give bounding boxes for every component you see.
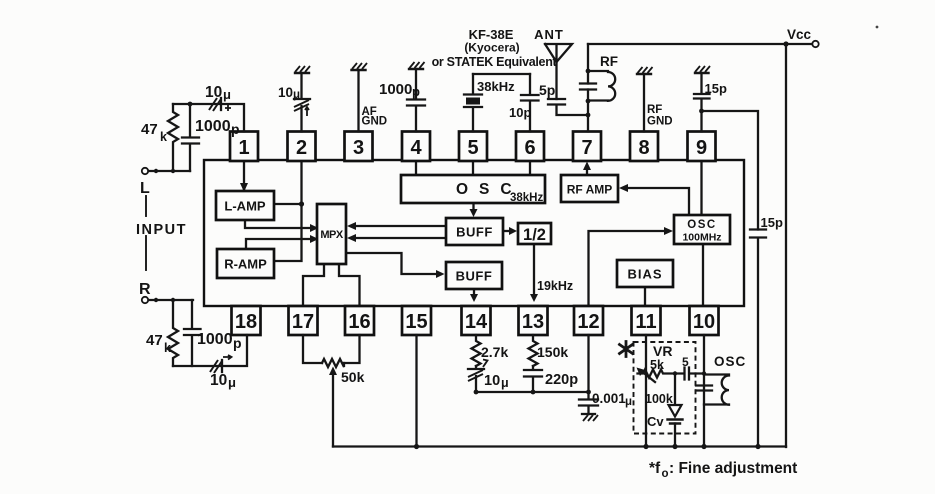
capacitor 220p pin13 xyxy=(524,366,542,392)
svg-text:17: 17 xyxy=(292,311,314,333)
wire MPX out to BUFF2 xyxy=(346,253,441,274)
terminal Vcc xyxy=(812,41,818,47)
potentiometer 50k xyxy=(322,359,344,367)
potentiometer 5k xyxy=(638,370,675,378)
svg-text:10: 10 xyxy=(484,373,500,389)
inductor OSC tank coil xyxy=(704,375,729,405)
capacitor 10u electrolytic L (series) xyxy=(209,98,231,111)
svg-text:10: 10 xyxy=(210,372,227,389)
wire pin12 to OSC100 xyxy=(589,231,670,306)
svg-text:R-AMP: R-AMP xyxy=(224,257,267,272)
wire pin16 to pot xyxy=(344,335,360,363)
svg-text:8: 8 xyxy=(638,137,649,159)
resistor 100k xyxy=(674,374,676,406)
block R-AMP xyxy=(217,249,274,278)
svg-text:RF: RF xyxy=(600,54,618,69)
svg-text:RF: RF xyxy=(647,104,662,116)
svg-text:k: k xyxy=(160,130,167,144)
pin 5 xyxy=(459,132,487,162)
capacitor 10p pin6 xyxy=(521,74,539,132)
wire 1/2 19kHz down to pin13 xyxy=(533,244,535,298)
svg-text:14: 14 xyxy=(465,311,488,333)
wire pin11 to rail xyxy=(645,335,647,447)
ground pin2 xyxy=(295,66,310,73)
resistor 2.7k pin14 xyxy=(472,335,481,366)
svg-text:10p: 10p xyxy=(509,105,531,120)
wire crystal bridge pin5 pin6 xyxy=(473,73,530,75)
inductor RF coil xyxy=(588,71,615,101)
capacitor 15p right-side xyxy=(750,230,766,448)
svg-text:47: 47 xyxy=(146,332,163,349)
svg-text:3: 3 xyxy=(353,137,364,159)
pin 13 xyxy=(519,306,548,335)
node junction L-AMP out xyxy=(299,201,304,206)
svg-text:10: 10 xyxy=(693,311,715,333)
svg-text:VR: VR xyxy=(653,343,672,359)
wire pin9 to OSC100 top xyxy=(700,161,702,215)
pin 9 xyxy=(688,132,716,162)
block L-AMP xyxy=(216,191,274,220)
pin 6 xyxy=(516,132,544,162)
wire R input xyxy=(149,299,194,301)
svg-text:13: 13 xyxy=(522,311,544,333)
svg-text:BUFF: BUFF xyxy=(456,225,493,240)
node pin9 link junction xyxy=(699,109,704,114)
pin 17 xyxy=(289,306,318,335)
svg-text:1: 1 xyxy=(238,137,249,159)
svg-text:μ: μ xyxy=(501,376,509,390)
svg-text:(Kyocera): (Kyocera) xyxy=(464,41,519,55)
svg-text:220p: 220p xyxy=(545,372,578,388)
wire MPX bottom-left to pin17 xyxy=(303,264,324,306)
wire pin5 to OSC38 xyxy=(472,161,474,175)
svg-text:GND: GND xyxy=(362,116,388,128)
pin 10 xyxy=(690,306,719,335)
svg-text:47: 47 xyxy=(141,121,158,138)
wire BUFF1 to MPX upper xyxy=(351,225,446,227)
svg-text:p: p xyxy=(233,335,242,351)
IC U1 outline xyxy=(204,160,744,306)
resistor 47k L-channel xyxy=(168,104,178,171)
svg-text:15: 15 xyxy=(405,311,427,333)
node junction 47k top R xyxy=(171,298,175,302)
svg-text:GND: GND xyxy=(647,116,673,128)
wire OSC38 to BUFF1 arrow xyxy=(472,203,474,213)
wire pin2 to pin17 / L-AMP out / R-AMP out vertical net xyxy=(274,161,302,261)
svg-text:p: p xyxy=(412,84,420,99)
capacitor 10u electrolytic pin2 xyxy=(294,73,310,132)
svg-text:: Fine adjustment: : Fine adjustment xyxy=(669,460,797,477)
svg-text:OSC: OSC xyxy=(714,354,746,369)
terminal L input xyxy=(142,168,148,174)
pin 18 xyxy=(232,306,261,335)
svg-text:2: 2 xyxy=(296,137,307,159)
block divider 1/2 xyxy=(518,223,551,244)
svg-text:R: R xyxy=(139,281,151,298)
svg-text:5p: 5p xyxy=(539,82,555,98)
wire pin15 to rail xyxy=(415,335,417,447)
svg-text:μ: μ xyxy=(293,89,300,101)
wire BUFF1 to MPX lower xyxy=(351,237,446,239)
svg-text:μ: μ xyxy=(228,375,236,390)
svg-text:μ: μ xyxy=(625,396,632,408)
svg-text:4: 4 xyxy=(410,137,422,159)
svg-text:L: L xyxy=(140,180,150,197)
svg-text:0.001: 0.001 xyxy=(592,391,626,406)
capacitor 1000p pin4 to ground xyxy=(407,62,425,132)
node 15p rail junction xyxy=(755,444,760,449)
svg-text:7: 7 xyxy=(581,137,592,159)
svg-text:k: k xyxy=(164,341,171,355)
wire BUFF1 to divider 1/2 xyxy=(503,230,513,232)
svg-text:16: 16 xyxy=(348,311,370,333)
pin 1 xyxy=(230,132,258,162)
pin 16 xyxy=(345,306,374,335)
ground pin3 AF GND xyxy=(352,63,368,132)
wire pin6 to OSC38 xyxy=(529,161,531,175)
capacitor 15p pin9 to ground xyxy=(694,66,710,132)
wire pin10 to rail xyxy=(703,335,705,447)
input bracket line xyxy=(145,196,147,216)
capacitor RF tank xyxy=(580,84,596,90)
capacitor 1000p L-channel xyxy=(182,104,199,171)
svg-text:Cv: Cv xyxy=(647,414,664,429)
svg-text:ANT: ANT xyxy=(534,27,564,42)
pin 8 xyxy=(630,132,658,162)
wire Vcc right-side drop xyxy=(785,44,787,447)
svg-text:19kHz: 19kHz xyxy=(537,279,573,293)
pin 11 xyxy=(632,306,661,335)
svg-text:100MHz: 100MHz xyxy=(682,232,721,244)
terminal R input xyxy=(142,297,148,303)
wire R coupling bottom xyxy=(173,335,247,366)
wire pin1 to L-AMP with arrow xyxy=(243,161,245,189)
svg-text:OSC: OSC xyxy=(687,219,716,231)
capacitor 10u electrolytic pin14 xyxy=(468,360,488,393)
pin 3 xyxy=(345,132,373,162)
wire pin17 to pot xyxy=(303,335,322,363)
svg-text:38kHz: 38kHz xyxy=(510,192,543,204)
varactor diode Cv xyxy=(668,405,683,449)
svg-text:38kHz: 38kHz xyxy=(477,79,515,94)
svg-text:10: 10 xyxy=(205,84,222,101)
node junction 47k bottom L xyxy=(171,169,175,173)
node tank top xyxy=(586,69,591,74)
block BUFF U-top xyxy=(446,218,503,245)
ground pin8 RF GND xyxy=(637,67,653,132)
crystal X1 38kHz pin5 xyxy=(464,74,482,132)
Vcc rail top xyxy=(588,43,786,45)
capacitor 5p fine-tune xyxy=(675,368,705,380)
wire R-AMP top to MPX xyxy=(246,239,315,249)
svg-text:Vcc: Vcc xyxy=(787,27,812,42)
capacitor OSC tank xyxy=(696,386,712,391)
svg-text:10: 10 xyxy=(278,85,293,100)
svg-text:p: p xyxy=(231,121,240,137)
svg-text:*f: *f xyxy=(649,460,661,477)
svg-text:12: 12 xyxy=(577,311,599,333)
wire L input xyxy=(149,170,191,172)
wire OSC100 to RF AMP xyxy=(623,188,689,215)
wiper 5k arrow xyxy=(640,370,655,382)
svg-text:1000: 1000 xyxy=(197,331,233,348)
pin 4 xyxy=(402,132,430,162)
svg-text:5: 5 xyxy=(682,355,689,369)
node junction 1000p top L xyxy=(188,102,193,107)
svg-text:MPX: MPX xyxy=(320,229,344,241)
node Vcc junction xyxy=(783,41,788,46)
wire pin4 to OSC38 xyxy=(415,161,417,175)
svg-text:9: 9 xyxy=(696,137,707,159)
asterisk mark xyxy=(620,342,633,357)
pin 7 xyxy=(573,132,601,162)
antenna symbol xyxy=(545,44,572,99)
pin 14 xyxy=(462,306,491,335)
svg-text:μ: μ xyxy=(223,87,231,102)
svg-text:L-AMP: L-AMP xyxy=(224,199,265,214)
wire RF tank feed pin7 xyxy=(587,44,589,132)
block OSC 100MHz xyxy=(674,215,730,244)
block OSC 38kHz xyxy=(401,175,545,204)
svg-text:6: 6 xyxy=(524,137,535,159)
bottom rail xyxy=(333,445,786,447)
svg-text:BIAS: BIAS xyxy=(627,267,662,282)
svg-text:2.7k: 2.7k xyxy=(481,344,508,360)
svg-text:RF AMP: RF AMP xyxy=(567,183,613,197)
resistor 150k pin13 xyxy=(529,335,538,366)
wire decoupling bus xyxy=(476,391,589,393)
node tank bottom xyxy=(586,99,591,104)
wire BIAS to pin11 xyxy=(644,287,646,306)
svg-text:5k: 5k xyxy=(650,358,664,372)
wire RF AMP up to pin7 xyxy=(586,166,588,175)
wire L-AMP output to pin2 net xyxy=(274,203,302,205)
block BIAS xyxy=(617,260,673,287)
capacitor 0.001u pin12 to ground xyxy=(579,335,598,421)
svg-text:15p: 15p xyxy=(761,215,783,230)
svg-text:or STATEK Equivalent: or STATEK Equivalent xyxy=(432,55,558,69)
wire Vcc to terminal xyxy=(788,43,812,45)
block MPX xyxy=(317,204,346,264)
pin 15 xyxy=(402,306,431,335)
node 5p junction xyxy=(586,113,591,118)
pin 12 xyxy=(574,306,603,335)
wire MPX bottom-right to pin16 xyxy=(339,264,360,306)
svg-text:1/2: 1/2 xyxy=(523,226,546,244)
svg-text:BUFF: BUFF xyxy=(456,269,493,284)
wire L-AMP lower out to MPX xyxy=(245,220,315,228)
svg-text:5: 5 xyxy=(467,137,478,159)
resistor 47k R-channel xyxy=(168,300,178,366)
svg-text:150k: 150k xyxy=(537,344,568,360)
svg-text:1000: 1000 xyxy=(195,118,231,135)
wire pin9 to 15p right xyxy=(702,111,759,230)
wire L coupling top xyxy=(173,104,244,132)
block BUFF U-bottom xyxy=(446,262,502,289)
wire BUFF2 down to pin14 xyxy=(473,289,475,298)
wiper 50k arrow xyxy=(332,371,334,447)
capacitor 5p antenna coupling xyxy=(548,99,588,115)
pin 2 xyxy=(288,132,316,162)
capacitor 1000p R-channel xyxy=(184,300,201,366)
svg-text:o: o xyxy=(662,468,669,480)
svg-text:15p: 15p xyxy=(705,81,727,96)
wire OSC100 bottom to pin10 xyxy=(702,244,704,306)
speck xyxy=(876,26,879,29)
svg-text:11: 11 xyxy=(635,311,656,333)
svg-text:INPUT: INPUT xyxy=(136,222,187,238)
block RF AMP xyxy=(561,175,618,202)
svg-text:50k: 50k xyxy=(341,369,365,385)
capacitor 10u electrolytic R (series) xyxy=(210,355,232,373)
VR dashed box xyxy=(634,342,696,434)
svg-text:1000: 1000 xyxy=(379,81,412,98)
svg-text:18: 18 xyxy=(235,311,257,333)
